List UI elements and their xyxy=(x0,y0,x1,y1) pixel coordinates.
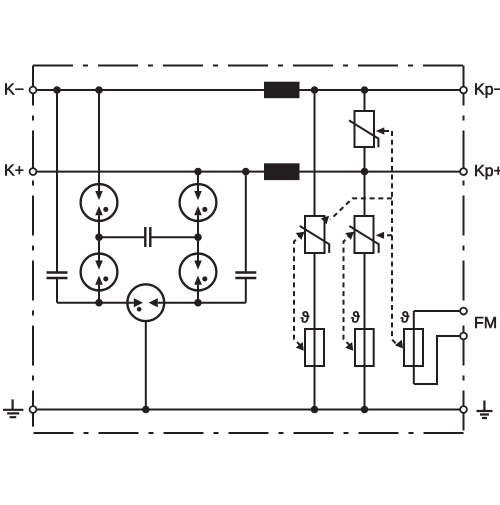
wire middle GDT to bus xyxy=(145,321,147,409)
dashed thermal linkage left column xyxy=(294,234,302,346)
capacitor C1 (left) xyxy=(47,273,68,279)
varistor lower-middle xyxy=(349,216,378,253)
label Kp+ xyxy=(475,165,500,179)
terminal FM upper xyxy=(460,308,467,315)
wire K+ line xyxy=(36,171,460,173)
label theta F2 xyxy=(351,311,360,323)
wire capacitor link xyxy=(99,236,145,238)
gas discharge tube lower-right xyxy=(180,254,217,291)
enclosure border (dash-dot) xyxy=(33,66,464,434)
wire bottom GDT common xyxy=(57,302,134,304)
dashed thermal linkage network right xyxy=(331,131,398,345)
ground symbol right xyxy=(477,401,493,419)
terminal Kp+ xyxy=(460,168,467,175)
capacitor C3 (right) xyxy=(235,273,256,279)
dashed thermal linkage middle column xyxy=(344,234,352,346)
terminal ground left xyxy=(30,406,37,413)
thermal disconnector F1 xyxy=(305,329,324,366)
wire right branch x=245.8 xyxy=(245,172,247,273)
label FM xyxy=(475,317,495,328)
varistor lower-left xyxy=(300,216,329,253)
terminal FM lower xyxy=(460,333,467,340)
varistor top (Kp- branch) xyxy=(349,111,378,147)
label K+ xyxy=(5,164,23,175)
wire ground bus xyxy=(36,409,460,411)
junction dots K+ line xyxy=(194,168,368,176)
terminal K+ xyxy=(30,168,37,175)
junction dots K- line xyxy=(53,86,368,94)
thermal disconnector F3 xyxy=(404,329,423,366)
gas discharge tube upper-right xyxy=(180,184,217,221)
capacitor C2 (middle) xyxy=(145,227,150,247)
thermal disconnector F2 xyxy=(355,329,374,366)
label K- xyxy=(5,83,23,94)
junction dots bottom GDT wire xyxy=(95,299,202,307)
terminal ground right xyxy=(460,406,467,413)
wire column x=364.5 xyxy=(364,90,366,410)
wire K- line xyxy=(36,89,460,91)
series decoupling element (K- path, black box) xyxy=(264,82,300,99)
wire column x=314.5 xyxy=(314,90,316,410)
wire left branch x=57 xyxy=(56,90,58,272)
label theta F1 xyxy=(300,311,309,323)
wire branch x=198 xyxy=(197,172,199,191)
gas discharge tube lower-left xyxy=(81,254,118,291)
label theta F3 xyxy=(400,311,409,323)
junction dots ground bus xyxy=(142,406,368,414)
label Kp- xyxy=(475,83,500,97)
gas discharge tube upper-left xyxy=(81,184,118,221)
series decoupling element (K+ path, black box) xyxy=(264,163,300,180)
junction dots capacitor link xyxy=(95,233,202,241)
terminal K- xyxy=(30,87,37,94)
wire branch x=99 upper xyxy=(98,90,100,191)
gas discharge tube middle (horizontal) xyxy=(127,284,164,321)
ground symbol left xyxy=(3,399,23,417)
wire column x=413.8 FM loop xyxy=(413,311,415,384)
terminal Kp- xyxy=(460,87,467,94)
